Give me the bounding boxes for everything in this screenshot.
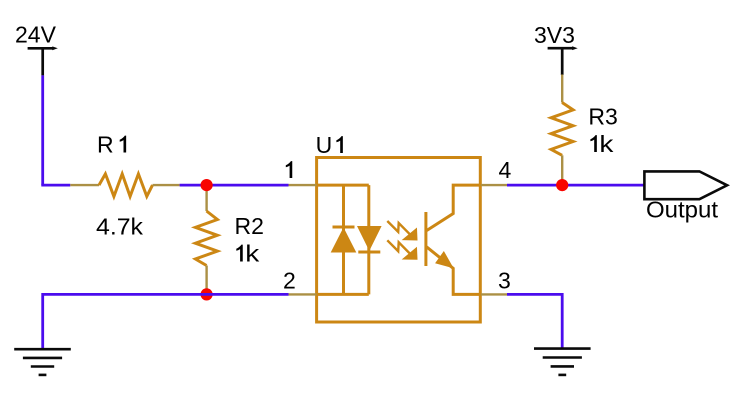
U1 LED diode right (down) (358, 227, 381, 253)
wire bottom rail to U1 pin 2 (43, 293, 289, 296)
svg-text:4: 4 (499, 157, 512, 183)
svg-text:2: 2 (283, 268, 296, 294)
svg-text:k: k (599, 131, 614, 157)
svg-text:R3: R3 (588, 103, 617, 129)
pin number 1 (286, 161, 292, 178)
pin 3 stub (481, 293, 507, 295)
output port flag (644, 171, 727, 199)
svg-text:24V: 24V (15, 22, 57, 48)
junction node R3/output (556, 179, 568, 191)
wire R1 to U1 pin 1 (180, 184, 289, 187)
svg-text:R2: R2 (235, 213, 264, 239)
U1 LED input rails (317, 185, 369, 294)
wire to left ground (41, 293, 44, 348)
resistor R3 (551, 75, 573, 186)
wire U1 pin 4 to output (507, 184, 645, 187)
resistor R2 (195, 185, 217, 294)
ground symbol right (534, 349, 591, 375)
svg-text:R: R (97, 132, 114, 158)
U1 LED diode left (up) (332, 227, 356, 252)
wire 24V vertical (41, 75, 44, 185)
junction node R1/R2 (201, 179, 213, 191)
pin 2 stub (289, 293, 317, 295)
power symbol 3V3 (548, 46, 578, 75)
optocoupler U1 box (317, 158, 481, 323)
svg-text:k: k (245, 241, 260, 267)
svg-text:U: U (316, 132, 333, 158)
ground symbol left (14, 349, 71, 375)
junction node R2/GND rail (201, 288, 213, 300)
value 1k (R2) (236, 245, 242, 262)
U1 phototransistor (426, 185, 481, 294)
pin 4 stub (481, 184, 507, 186)
svg-text:3V3: 3V3 (534, 22, 575, 48)
power symbol 24V (28, 46, 58, 75)
value 1k (R3) (590, 135, 596, 152)
svg-text:4.7k: 4.7k (96, 214, 144, 240)
wire U1 pin 3 to ground (507, 294, 562, 348)
pin 1 stub (289, 184, 317, 186)
photon arrow lower (387, 240, 417, 259)
svg-text:Output: Output (646, 197, 719, 223)
wire 24V to R1 (41, 184, 70, 187)
U1 emitter arrowhead (436, 252, 453, 268)
resistor R1 (70, 174, 179, 197)
photon arrow upper (387, 221, 417, 240)
svg-text:3: 3 (498, 268, 511, 294)
